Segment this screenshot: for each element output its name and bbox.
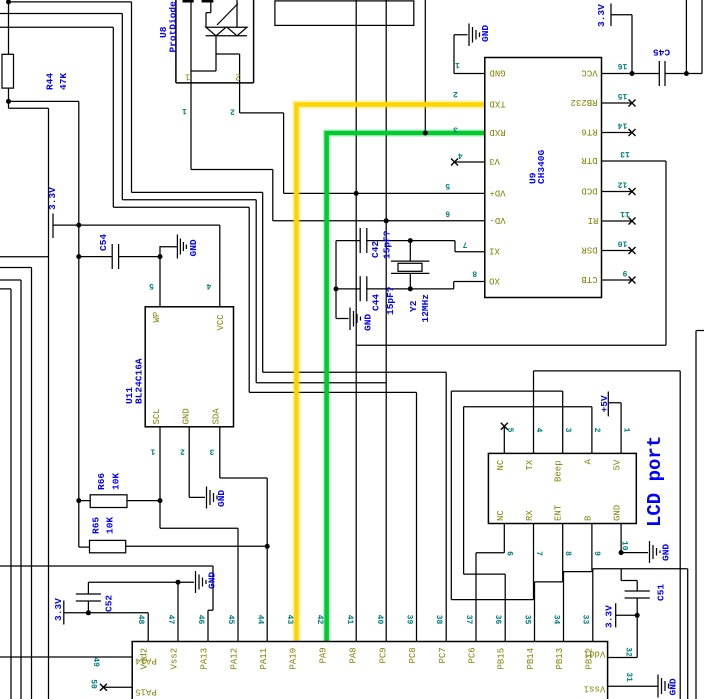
diode part U8 box (176, 0, 254, 83)
svg-text:RXD: RXD (489, 127, 505, 137)
svg-text:15pF?: 15pF? (385, 286, 396, 315)
wire U9 DTR pin13 long loop (356, 161, 666, 345)
svg-text:8: 8 (563, 551, 572, 556)
X at LCD pin5 (501, 423, 508, 430)
wire MCU pin31 Vss1 to GND (608, 685, 658, 687)
wire U9 RT6 pin14 (602, 132, 633, 134)
ground sym (U11 pin2) (207, 487, 218, 509)
X at U9 pin12 (629, 188, 636, 195)
wire LCD pin9 B to MCU pin34 (564, 524, 592, 642)
svg-text:3.3V: 3.3V (47, 187, 58, 210)
wire LCD pin10 GND (621, 524, 648, 553)
svg-text:49: 49 (91, 657, 100, 667)
wire U9 V3 pin4 (455, 161, 485, 163)
svg-text:GND: GND (661, 544, 672, 561)
X at U9 pin9 (629, 277, 636, 284)
svg-text:5: 5 (445, 181, 450, 190)
svg-text:43: 43 (285, 615, 294, 625)
svg-text:Y2: Y2 (408, 300, 419, 312)
svg-text:41: 41 (345, 615, 354, 625)
capacitor C54 (112, 244, 118, 269)
svg-text:+5V: +5V (599, 395, 610, 412)
svg-text:PC6: PC6 (468, 647, 478, 663)
connector LCD box (488, 453, 636, 523)
svg-text:3: 3 (453, 125, 458, 134)
svg-text:1: 1 (182, 106, 187, 115)
wire LCD pin3 Beep loop to pin7 RX (451, 391, 562, 599)
svg-text:ProtDiode: ProtDiode (168, 1, 179, 53)
svg-text:R66: R66 (96, 473, 107, 490)
svg-text:4: 4 (458, 151, 463, 160)
svg-text:DCD: DCD (581, 186, 597, 196)
svg-text:33: 33 (581, 615, 590, 625)
svg-text:TXD: TXD (489, 99, 505, 109)
svg-text:GND: GND (489, 68, 505, 78)
no-connect X marks (100, 100, 636, 691)
capacitor C45 (659, 61, 665, 86)
wire LCD pin5 NC (503, 426, 505, 453)
svg-text:6: 6 (445, 209, 450, 218)
ground sym (C54/WP) (177, 235, 186, 259)
svg-text:4: 4 (206, 281, 211, 290)
svg-text:GND: GND (188, 239, 199, 256)
wire U9 pin1 GND (454, 35, 485, 74)
svg-text:10: 10 (620, 541, 629, 551)
wire U9 XI pin7 to crystal rail (336, 241, 485, 319)
wire MCU pin33 PB12 up to right bus (593, 569, 688, 699)
svg-text:45: 45 (226, 615, 235, 625)
capacitor C44 (360, 276, 367, 301)
svg-text:42: 42 (315, 615, 324, 625)
svg-text:11: 11 (620, 209, 630, 218)
svg-text:PA13: PA13 (200, 648, 210, 670)
svg-text:Vss2: Vss2 (170, 648, 180, 670)
svg-text:39: 39 (405, 615, 414, 625)
svg-text:XI: XI (489, 246, 500, 256)
wire crystal stubs (409, 241, 411, 289)
svg-text:V3: V3 (489, 156, 500, 166)
svg-text:10: 10 (618, 239, 628, 248)
svg-text:3: 3 (563, 428, 572, 433)
svg-text:C51: C51 (656, 584, 667, 601)
svg-text:ENT: ENT (554, 504, 564, 521)
wire U9 XO pin8 to crystal rail (336, 282, 485, 289)
ground sym (LCD pin10) (650, 541, 661, 563)
svg-text:47K: 47K (58, 73, 69, 90)
svg-text:2: 2 (235, 72, 240, 82)
connector top box (275, 1, 414, 26)
svg-text:37: 37 (464, 615, 473, 625)
svg-text:32: 32 (624, 647, 633, 657)
svg-text:WP: WP (152, 312, 162, 323)
power 3.3V #1 wire (53, 214, 79, 239)
wire U8 pin1 chain to U9 V0- line (191, 83, 485, 221)
ground sym (Vss1 pin31) (658, 675, 669, 698)
svg-text:TX: TX (525, 459, 535, 470)
svg-text:Vss1: Vss1 (584, 684, 606, 694)
svg-text:9: 9 (622, 268, 627, 277)
svg-text:PA14: PA14 (135, 656, 157, 666)
svg-text:VD-: VD- (489, 215, 505, 225)
svg-text:VD+: VD+ (489, 187, 505, 197)
svg-text:PA9: PA9 (319, 647, 329, 663)
capacitor C52 (76, 594, 101, 601)
svg-text:5: 5 (505, 428, 514, 433)
svg-text:CH340G: CH340G (536, 149, 547, 184)
svg-text:1: 1 (455, 60, 460, 69)
svg-text:RB232: RB232 (570, 97, 597, 107)
svg-text:C52: C52 (104, 595, 115, 612)
svg-text:R65: R65 (91, 517, 102, 534)
svg-text:PC9: PC9 (379, 647, 389, 663)
svg-text:PB15: PB15 (497, 648, 507, 670)
svg-text:C44: C44 (371, 294, 382, 311)
svg-text:5: 5 (149, 281, 154, 290)
svg-text:2: 2 (453, 89, 458, 98)
wire left edge nested verticals (0, 257, 49, 699)
svg-text:VCC: VCC (216, 314, 226, 331)
IC U11 box (145, 307, 233, 427)
svg-text:1: 1 (621, 428, 630, 433)
X at U9 pin15 (629, 100, 636, 107)
X at U9 pin14 (629, 129, 636, 136)
svg-text:R44: R44 (45, 73, 56, 90)
resistor R66 (90, 495, 127, 508)
svg-text:PA10: PA10 (289, 648, 299, 670)
wire MCU pin49 (0, 656, 132, 658)
svg-text:9: 9 (592, 551, 601, 556)
svg-text:15pF?: 15pF? (382, 230, 393, 259)
svg-text:44: 44 (256, 615, 265, 625)
svg-text:GND: GND (363, 314, 374, 331)
wire U8 pin2 chain to U9 V0+ line (240, 83, 485, 193)
svg-text:GND: GND (216, 490, 227, 507)
svg-text:46: 46 (196, 615, 205, 625)
svg-text:14: 14 (618, 121, 628, 130)
svg-text:SDA: SDA (212, 408, 222, 425)
wire R44 top to bus corner (9, 0, 447, 642)
highlighted net yellow PA10/TXD (296, 105, 484, 642)
svg-text:PB14: PB14 (526, 648, 536, 670)
ground sym (U9 pin1) (469, 24, 480, 47)
capacitor C42 (360, 228, 367, 253)
svg-text:LCD port: LCD port (644, 436, 666, 527)
wire top-edge verticals to V0+/V0- nets and MCU pins41/40 (356, 0, 425, 642)
svg-text:PA12: PA12 (230, 648, 240, 670)
svg-text:38: 38 (434, 615, 443, 625)
svg-text:PC7: PC7 (438, 647, 448, 663)
svg-text:2: 2 (592, 428, 601, 433)
svg-text:VCC: VCC (581, 68, 598, 78)
wire U11 pin2 GND (189, 427, 205, 498)
X at U9 V3 (451, 159, 458, 166)
svg-text:PA11: PA11 (259, 648, 269, 670)
crystal Y2 (391, 261, 429, 273)
wire right edge entry (696, 331, 704, 699)
svg-text:5V: 5V (613, 459, 623, 470)
resistor R44 (2, 54, 14, 88)
svg-text:3.3V: 3.3V (604, 605, 615, 628)
svg-text:34: 34 (551, 615, 560, 625)
diode D-right in U8 (206, 0, 247, 36)
svg-text:50: 50 (89, 679, 98, 689)
X at U9 pin11 (629, 218, 636, 225)
svg-text:16: 16 (618, 61, 628, 70)
svg-text:C54: C54 (98, 234, 109, 251)
wire U9 RB232 pin15 (602, 102, 633, 104)
svg-text:10K: 10K (111, 473, 122, 490)
svg-text:12MHz: 12MHz (420, 294, 431, 323)
svg-text:GND: GND (668, 678, 679, 695)
svg-text:12: 12 (618, 180, 628, 189)
svg-text:PA15: PA15 (135, 687, 157, 697)
svg-text:C45: C45 (653, 47, 670, 58)
svg-text:NC: NC (496, 459, 506, 470)
wire LCD pin6 NC to MCU pin37 (476, 524, 504, 642)
wire MCU pin50 (103, 686, 132, 688)
svg-text:40: 40 (375, 615, 384, 625)
wire C51 net (608, 569, 638, 658)
svg-text:3.3V: 3.3V (596, 4, 607, 27)
svg-text:4: 4 (534, 428, 543, 433)
svg-text:2: 2 (230, 107, 235, 116)
capacitor C51 (625, 591, 650, 598)
svg-text:48: 48 (136, 615, 145, 625)
svg-text:GND: GND (182, 408, 192, 424)
svg-text:RX: RX (525, 510, 535, 521)
X at U9 pin10 (629, 247, 636, 254)
wire LCD pin8 ENT to MCU pin35 (535, 524, 563, 642)
svg-text:7: 7 (534, 551, 543, 556)
svg-text:1: 1 (150, 447, 155, 456)
wire U9 RI pin11 (602, 220, 633, 222)
svg-text:31: 31 (624, 672, 633, 682)
svg-text:3.3V: 3.3V (53, 598, 64, 621)
svg-text:47: 47 (166, 615, 175, 625)
wire U11 SCL / R66 (79, 427, 238, 642)
svg-text:GND: GND (613, 505, 623, 521)
svg-text:NC: NC (496, 510, 506, 521)
svg-text:8: 8 (472, 269, 477, 278)
power 3.3V #3 wire to MCU pin48 (64, 601, 148, 642)
svg-text:A: A (584, 459, 594, 465)
wire U11 SDA / R65 to MCU pin44 (79, 427, 267, 642)
svg-text:1: 1 (185, 72, 190, 82)
wire U9 CTB pin9 (602, 279, 633, 281)
wire U9 DCD pin12 (602, 191, 633, 193)
diode D-left in U8 (191, 0, 240, 83)
wire C52 riser and Vss2 gnd rail (88, 582, 194, 641)
svg-text:PB13: PB13 (555, 648, 565, 670)
svg-text:DTR: DTR (581, 155, 598, 165)
wire LCD pin1 5V (608, 392, 621, 454)
wire R44 bottom branches (9, 88, 79, 699)
svg-text:10K: 10K (105, 517, 116, 534)
wire LCD pin2 A to MCU pin36 (464, 407, 592, 642)
wire C54 net / WP riser / U11 VCC riser (79, 225, 220, 307)
svg-text:SCL: SCL (152, 408, 162, 424)
svg-text:6: 6 (504, 551, 513, 556)
svg-text:DSR: DSR (581, 245, 598, 255)
svg-text:RT6: RT6 (581, 127, 597, 137)
svg-text:PC8: PC8 (408, 647, 418, 663)
wire left edge y13.5 chain to V0- tap (0, 14, 386, 383)
svg-text:7: 7 (462, 240, 467, 249)
wire U9 VCC rail with C45 (602, 0, 703, 74)
svg-text:PA8: PA8 (349, 647, 359, 663)
svg-text:RI: RI (588, 215, 599, 225)
top edge thick stubs (183, 0, 214, 3)
wire PA13 jog to left edge (0, 566, 213, 642)
svg-text:Beep: Beep (554, 460, 564, 482)
svg-text:3: 3 (209, 447, 214, 456)
svg-text:BL24C16A: BL24C16A (134, 358, 145, 404)
svg-text:13: 13 (620, 149, 630, 158)
IC U9 box (485, 58, 602, 298)
svg-text:XO: XO (489, 276, 500, 286)
highlighted net green PA9/RXD (327, 133, 485, 642)
wire U9 DSR pin10 (602, 250, 633, 252)
wire left edge y27.2 chain to MCU pin39 (0, 27, 417, 641)
ground sym (crystal) (350, 308, 361, 331)
svg-text:36: 36 (493, 615, 502, 625)
svg-text:Vdd1: Vdd1 (584, 649, 606, 659)
svg-text:15: 15 (618, 91, 628, 100)
svg-text:GND: GND (480, 25, 491, 42)
svg-text:B: B (584, 515, 594, 521)
resistor R65 (90, 540, 126, 552)
svg-text:C42: C42 (370, 241, 381, 258)
svg-text:CTB: CTB (581, 274, 598, 284)
X at MCU pin50 (100, 684, 107, 691)
IC MCU box (bottom, cut off) (132, 642, 607, 699)
svg-text:GND: GND (207, 572, 218, 589)
wire LCD pin4 TX to right bus (534, 371, 681, 699)
svg-text:35: 35 (522, 615, 531, 625)
svg-text:2: 2 (180, 447, 185, 456)
ground sym (Vss2/C52) (196, 571, 207, 593)
